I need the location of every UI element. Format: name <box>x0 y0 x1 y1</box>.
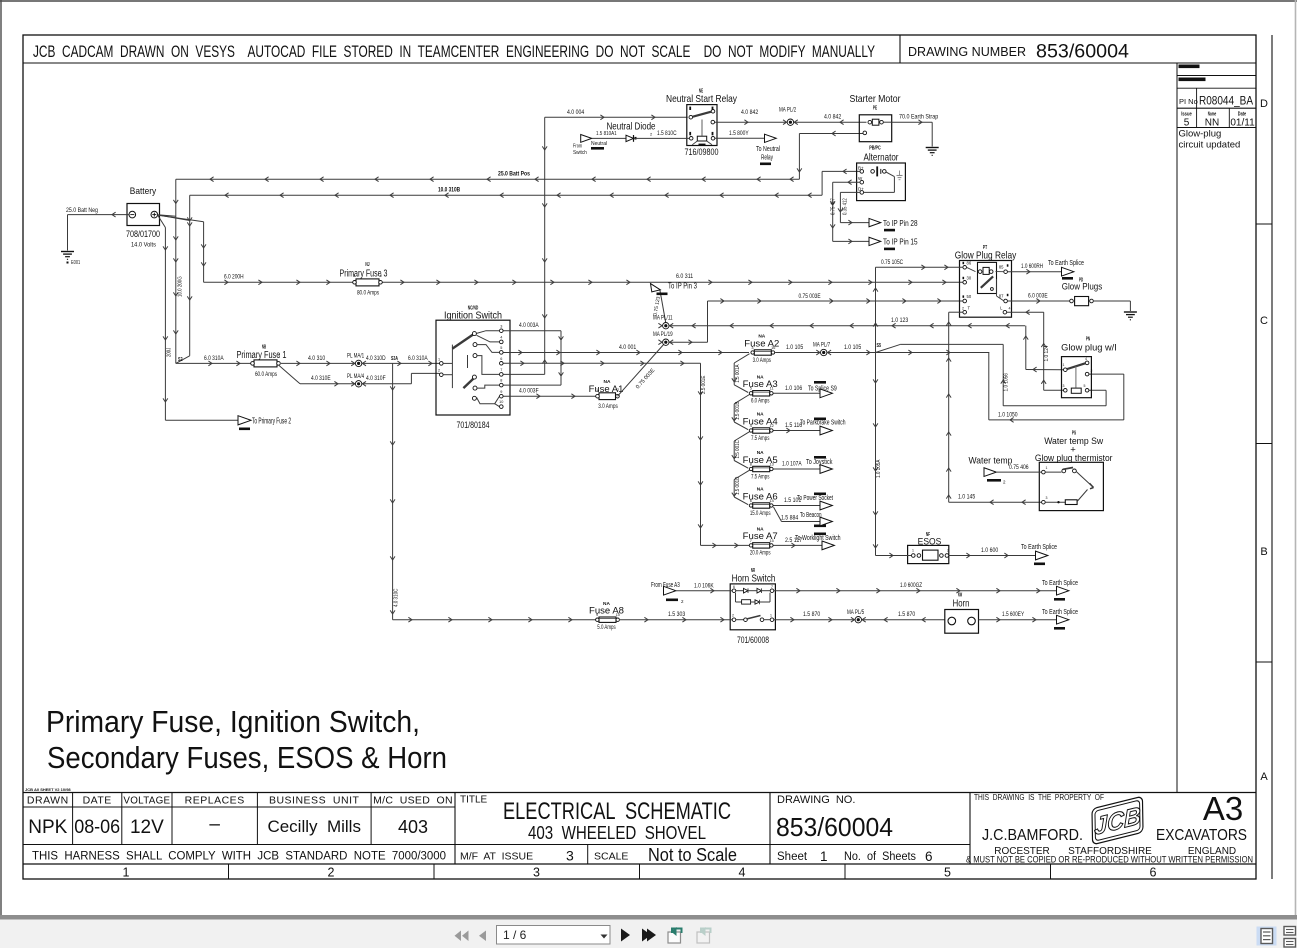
svg-text:01/11: 01/11 <box>1230 118 1255 129</box>
switch NR Horn Switch 701/60008 <box>730 568 775 646</box>
wire alternator W to IP Pin 15 <box>830 180 868 244</box>
svg-text:Water temp: Water temp <box>968 456 1012 467</box>
svg-text:4: 4 <box>750 424 752 428</box>
svg-text:S2: S2 <box>178 357 183 363</box>
wire 200J to Primary Fuse 2 <box>163 228 238 421</box>
svg-text:6: 6 <box>733 585 735 589</box>
svg-text:ELECTRICAL SCHEMATIC: ELECTRICAL SCHEMATIC <box>503 798 731 825</box>
svg-text:Glow-plug: Glow-plug <box>1179 129 1222 140</box>
svg-text:To Power Socket: To Power Socket <box>797 495 833 502</box>
svg-text:4: 4 <box>739 866 746 880</box>
wire 25.0 Batt Neg <box>66 208 129 251</box>
svg-text:6.0 003E: 6.0 003E <box>1028 293 1048 299</box>
svg-text:Battery: Battery <box>130 186 157 197</box>
wire 1.5 800Y to neutral relay <box>715 131 780 165</box>
svg-text:5: 5 <box>750 387 752 391</box>
title block row 1 labels <box>27 795 453 807</box>
arrow From Fuse A3 <box>651 582 684 604</box>
svg-text:To Neutral: To Neutral <box>756 146 780 153</box>
wire L pin / 1.0 124 <box>1007 310 1050 384</box>
alternator PB/PC <box>857 153 906 201</box>
svg-text:1: 1 <box>1046 466 1048 470</box>
svg-text:Not to Scale: Not to Scale <box>648 845 737 865</box>
svg-text:0.35 412: 0.35 412 <box>843 198 849 215</box>
svg-text:VOLTAGE: VOLTAGE <box>123 795 170 807</box>
wire 1.0 106K <box>676 583 732 593</box>
wire 1.0 1050 pin2 loop <box>989 353 1124 423</box>
svg-text:From: From <box>573 144 582 150</box>
switch PS Water temp Sw + Glow plug thermistor <box>1035 431 1113 511</box>
arrow To Earth Splice (horn switch) <box>1042 580 1078 601</box>
svg-text:10.0 310B: 10.0 310B <box>438 188 461 194</box>
wire 1.0 124 to pin 3 <box>1044 381 1064 390</box>
svg-text:2.5 001E: 2.5 001E <box>701 375 707 394</box>
svg-text:PL MA/1: PL MA/1 <box>347 354 365 360</box>
wire 25.0 Batt Pos bus <box>176 131 864 182</box>
svg-text:Neutral Start Relay: Neutral Start Relay <box>666 93 738 105</box>
arrow To Worklight Switch <box>822 541 834 550</box>
svg-text:85: 85 <box>999 265 1004 270</box>
svg-text:4.0 004: 4.0 004 <box>567 110 585 116</box>
svg-text:10: 10 <box>616 613 620 617</box>
svg-text:50: 50 <box>967 294 972 299</box>
connector MA PL/2 <box>715 108 867 126</box>
arrow To Power Socket <box>820 501 832 510</box>
arrow To Primary Fuse 2 <box>238 416 291 430</box>
svg-text:1.5 810C: 1.5 810C <box>657 131 677 137</box>
wire 1.0 105A S5 to ESOS <box>873 353 882 556</box>
arrow To Earth Splice (ESOS) <box>1021 544 1057 565</box>
svg-text:1.0 600RH: 1.0 600RH <box>1021 264 1043 270</box>
fuse NA Fuse A5 <box>743 450 778 480</box>
svg-text:08-06: 08-06 <box>74 817 120 838</box>
fuse NA Fuse A2 <box>744 334 779 364</box>
arrow Water temp (from sheet 2) <box>968 456 1041 485</box>
svg-text:R08044_BA: R08044_BA <box>1199 96 1253 108</box>
arrow To Joystick <box>820 465 832 474</box>
wire 1.5 870 to MA PL/5 <box>774 610 865 622</box>
svg-text:6: 6 <box>925 849 933 864</box>
svg-text:1: 1 <box>438 357 440 361</box>
arrow To IP Pin 28 <box>869 218 918 231</box>
svg-text:& MUST NOT BE COPIED OR RE-PRO: & MUST NOT BE COPIED OR RE-PRODUCED WITH… <box>966 855 1253 865</box>
svg-text:2: 2 <box>962 307 964 311</box>
svg-text:10.0 200G: 10.0 200G <box>178 276 184 297</box>
svg-text:D: D <box>1260 98 1268 110</box>
svg-text:A: A <box>1260 771 1268 783</box>
svg-text:Horn: Horn <box>953 599 970 610</box>
wire zigzag A5-A6 1.5 001D <box>732 470 750 505</box>
svg-text:Alternator: Alternator <box>864 153 900 164</box>
svg-text:1: 1 <box>912 549 914 553</box>
switch PN Glow plug w/I <box>1061 337 1117 398</box>
svg-text:7.5 Amps: 7.5 Amps <box>751 474 769 480</box>
svg-text:6.0 311: 6.0 311 <box>676 274 694 280</box>
svg-text:6.0 310A: 6.0 310A <box>204 356 224 362</box>
fuse NJ Primary Fuse 3 <box>340 262 388 297</box>
svg-text:15: 15 <box>769 539 773 543</box>
svg-text:2: 2 <box>380 274 382 278</box>
svg-text:To Earth Splice: To Earth Splice <box>1042 609 1078 616</box>
svg-text:J.C.BAMFORD.: J.C.BAMFORD. <box>982 827 1083 844</box>
svg-text:1: 1 <box>353 274 355 278</box>
svg-text:7: 7 <box>771 585 773 589</box>
svg-text:MA PL/7: MA PL/7 <box>813 342 831 348</box>
svg-text:4: 4 <box>1009 307 1011 311</box>
fuse NA Fuse A4 <box>743 412 778 442</box>
svg-text:NJ: NJ <box>365 262 369 268</box>
svg-text:DATE: DATE <box>83 795 112 807</box>
svg-text:1.0 1056: 1.0 1056 <box>1004 373 1010 391</box>
arrow To Earth Splice (horn) <box>1042 609 1078 630</box>
svg-text:3: 3 <box>566 848 574 864</box>
svg-text:M/C USED ON: M/C USED ON <box>373 795 453 807</box>
title block grid <box>23 787 1256 879</box>
svg-text:Primary Fuse, Ignition Switch,: Primary Fuse, Ignition Switch, <box>46 705 420 739</box>
title cell <box>460 795 737 866</box>
svg-text:1.5 800Y: 1.5 800Y <box>729 131 749 137</box>
wire 1.5 884 to beacon <box>774 507 827 527</box>
wire fuse A8 row <box>393 617 596 622</box>
fuse NB Primary Fuse 1 <box>237 345 287 379</box>
svg-text:4.0 310D: 4.0 310D <box>366 356 386 362</box>
wire T pin / 1.0 145 <box>946 312 1041 504</box>
svg-text:S5: S5 <box>877 343 882 349</box>
svg-text:4.0 310C: 4.0 310C <box>394 589 400 607</box>
wire 1.0 123 bus <box>669 318 1025 328</box>
svg-text:E001: E001 <box>71 260 80 266</box>
node S2 <box>176 356 190 364</box>
svg-text:3.0 Amps: 3.0 Amps <box>598 404 618 410</box>
wire 1.0 600GZ to earth splice <box>774 583 1056 593</box>
wire pin7 to 544.7 vertical / 4.0 004 <box>503 110 687 375</box>
wire 0.75 003E diagonal <box>618 344 665 397</box>
svg-text:1.0 600GZ: 1.0 600GZ <box>900 583 922 589</box>
svg-text:Horn Switch: Horn Switch <box>732 574 776 585</box>
svg-text:PB/PC: PB/PC <box>869 146 881 152</box>
svg-text:1: 1 <box>820 849 828 864</box>
svg-text:2: 2 <box>278 355 280 359</box>
motor PE Starter Motor <box>850 93 901 152</box>
svg-text:DRAWING NUMBER: DRAWING NUMBER <box>908 44 1026 59</box>
svg-text:701/80184: 701/80184 <box>457 420 490 431</box>
svg-text:To IP Pin 28: To IP Pin 28 <box>883 219 918 228</box>
wire alternator D+ to IP Pin 28 <box>831 192 869 225</box>
svg-text:1: 1 <box>770 614 772 618</box>
svg-text:To Joystick: To Joystick <box>806 459 833 466</box>
wire 1.5 870 to horn <box>862 612 945 622</box>
svg-text:3: 3 <box>751 346 753 350</box>
svg-text:1.0 106: 1.0 106 <box>785 386 803 392</box>
connector MA PL/11 <box>653 316 673 329</box>
svg-text:To Primary Fuse 2: To Primary Fuse 2 <box>252 416 291 425</box>
svg-text:1.0 124: 1.0 124 <box>1044 345 1050 361</box>
svg-text:SCALE: SCALE <box>594 851 628 863</box>
header bar text <box>33 42 1129 63</box>
svg-text:6.0 310A: 6.0 310A <box>408 356 428 362</box>
svg-text:1.5 303: 1.5 303 <box>668 612 686 618</box>
svg-text:4.0 842: 4.0 842 <box>824 115 842 121</box>
svg-text:To Parkbrake Switch: To Parkbrake Switch <box>800 420 846 427</box>
svg-text:80.0 Amps: 80.0 Amps <box>357 291 379 297</box>
svg-text:Glow Plug Relay: Glow Plug Relay <box>955 250 1017 262</box>
drawing no cell <box>776 794 933 864</box>
svg-text:Glow Plugs: Glow Plugs <box>1062 282 1103 293</box>
property cell <box>966 790 1253 865</box>
svg-text:716/09800: 716/09800 <box>685 147 719 158</box>
svg-text:2: 2 <box>1091 369 1093 373</box>
arrow To IP Pin 3 <box>651 282 698 324</box>
glow plugs PD <box>1008 282 1131 312</box>
fuse NA Fuse A6 <box>743 487 778 517</box>
svg-text:3: 3 <box>500 324 502 328</box>
svg-text:6: 6 <box>750 499 752 503</box>
connector PL MA/1 <box>347 354 366 367</box>
fuse NA Fuse A7 <box>743 527 778 557</box>
wire 4.0 003F pin9 to fuse A1 <box>503 389 596 399</box>
svg-text:20.0 Amps: 20.0 Amps <box>750 551 771 557</box>
fuse NA Fuse A3 <box>743 375 778 405</box>
arrow To Splice S9 <box>820 389 832 398</box>
battery 708/01700 <box>126 186 160 249</box>
switch NC/ND Ignition Switch 701/80184 <box>436 306 510 432</box>
wire 4.0 003A pin3 loop <box>503 323 563 385</box>
wire 6.0 200H battery down <box>201 222 206 283</box>
svg-text:1.5 001B: 1.5 001B <box>735 401 741 420</box>
wire 200K battery to S2 via 189.7 <box>187 195 192 356</box>
svg-text:MA PL/5: MA PL/5 <box>847 610 865 616</box>
fuse NA Fuse A8 <box>589 601 624 631</box>
connector MA PL/19 <box>653 332 673 346</box>
svg-text:30: 30 <box>967 276 972 281</box>
svg-text:4: 4 <box>500 336 502 340</box>
svg-text:JCB CADCAM DRAWN ON VESYS: JCB CADCAM DRAWN ON VESYS AUTOCAD FILE S… <box>33 43 875 61</box>
connector PL MA/4 <box>347 374 366 387</box>
svg-text:9: 9 <box>500 390 502 394</box>
svg-text:Sheet: Sheet <box>777 851 808 863</box>
svg-text:1.5 600EY: 1.5 600EY <box>1002 612 1024 618</box>
wire 2.5 117 to worklight <box>774 533 841 548</box>
svg-text:13: 13 <box>769 462 773 466</box>
svg-text:853/60004: 853/60004 <box>776 812 893 842</box>
arrow To Parkbrake Switch <box>820 426 832 435</box>
svg-text:0.75 407: 0.75 407 <box>831 198 837 215</box>
svg-text:1: 1 <box>596 388 598 392</box>
svg-text:708/01700: 708/01700 <box>126 229 160 239</box>
svg-text:DRAWING NO.: DRAWING NO. <box>777 794 855 806</box>
wire 1.0 600RH to earth splice <box>1008 264 1061 274</box>
svg-text:25.0 Batt Pos: 25.0 Batt Pos <box>498 172 530 178</box>
svg-text:6.0 200H: 6.0 200H <box>224 275 244 281</box>
svg-text:14: 14 <box>769 499 773 503</box>
page layout icons <box>1257 927 1296 948</box>
svg-text:2: 2 <box>438 369 440 373</box>
svg-text:5: 5 <box>1084 384 1086 388</box>
svg-text:2: 2 <box>947 549 949 553</box>
svg-text:JCB A0 SHEET V2 10/98: JCB A0 SHEET V2 10/98 <box>25 787 71 792</box>
wire 1.0 107A to joystick <box>774 456 833 469</box>
wire 1.5 303 <box>620 612 732 622</box>
connector MA PL/5 <box>855 617 861 623</box>
svg-text:Relay: Relay <box>761 155 773 162</box>
svg-text:12: 12 <box>769 424 773 428</box>
svg-text:5: 5 <box>944 866 951 880</box>
svg-text:4.0 001: 4.0 001 <box>619 345 637 351</box>
ground glow plugs <box>1124 311 1137 313</box>
svg-text:1.0 145: 1.0 145 <box>958 495 976 501</box>
svg-text:200J: 200J <box>167 348 173 357</box>
svg-text:1: 1 <box>123 866 130 880</box>
arrow To Beacon <box>820 517 832 526</box>
diode Neutral Diode <box>573 122 690 157</box>
ground starter earth <box>926 147 939 149</box>
svg-text:PL MA/4: PL MA/4 <box>347 374 365 380</box>
svg-text:MA PL/19: MA PL/19 <box>653 332 673 338</box>
svg-text:Secondary Fuses, ESOS & Horn: Secondary Fuses, ESOS & Horn <box>47 741 447 775</box>
arrow To IP Pin 15 <box>869 237 918 250</box>
svg-text:1.0 105: 1.0 105 <box>786 345 804 351</box>
svg-text:1.5 001A: 1.5 001A <box>735 364 741 383</box>
svg-text:Cecilly Mills: Cecilly Mills <box>267 817 361 836</box>
svg-text:MA PL/2: MA PL/2 <box>779 108 797 114</box>
svg-text:1.0 1050: 1.0 1050 <box>998 412 1018 418</box>
svg-text:THIS HARNESS SHALL COMPLY: THIS HARNESS SHALL COMPLY WITH JCB STAND… <box>32 851 446 863</box>
wire 6.0 310A row <box>176 356 440 366</box>
wire 0.75 105C <box>873 260 963 353</box>
wire 1.5 600EY to earth splice <box>979 612 1057 622</box>
zone numbers <box>123 866 1157 880</box>
svg-text:5: 5 <box>1184 118 1190 129</box>
toolbar <box>455 926 711 945</box>
svg-text:5: 5 <box>500 346 502 350</box>
svg-text:11: 11 <box>770 387 774 391</box>
wire 6.0 200H / 6.0 311 bus <box>204 274 963 285</box>
svg-text:1.5 810A1: 1.5 810A1 <box>596 131 617 137</box>
svg-text:1.0 600: 1.0 600 <box>981 548 999 554</box>
wire 4.0 310E bypass <box>279 365 440 386</box>
relay PT Glow Plug Relay <box>955 245 1017 317</box>
svg-text:4.0 003F: 4.0 003F <box>519 389 539 395</box>
svg-text:853/60004: 853/60004 <box>1036 42 1129 63</box>
svg-text:1 / 6: 1 / 6 <box>503 928 527 942</box>
svg-text:Glow plug w/I: Glow plug w/I <box>1061 343 1117 354</box>
wire 1.0 105 to MA PL/7 <box>775 342 831 352</box>
wire 1.0 1056 S5 to pin 5 <box>901 344 1106 405</box>
wire 1.5 116 to parkbrake <box>774 418 846 433</box>
svg-text:No. of Sheets: No. of Sheets <box>844 851 916 863</box>
svg-text:NPK: NPK <box>28 817 67 838</box>
wire 1.5 101 to power socket <box>774 493 834 506</box>
svg-text:16: 16 <box>771 346 775 350</box>
svg-text:Starter Motor: Starter Motor <box>850 93 901 105</box>
svg-text:Switch: Switch <box>573 150 587 156</box>
svg-text:60.0 Amps: 60.0 Amps <box>255 372 277 378</box>
wire 0.75 003E to glow plug relay 50 <box>669 294 963 345</box>
svg-text:701/60008: 701/60008 <box>737 635 769 646</box>
svg-text:4: 4 <box>1085 357 1087 361</box>
svg-text:3: 3 <box>1063 384 1065 388</box>
svg-text:S3A: S3A <box>391 356 398 362</box>
svg-text:1: 1 <box>1063 363 1065 367</box>
zone letters <box>1260 98 1268 783</box>
svg-text:6: 6 <box>500 357 502 361</box>
relay NE Neutral Start Relay 716/09800 <box>666 89 738 159</box>
svg-text:1.0 105: 1.0 105 <box>844 345 862 351</box>
svg-text:6: 6 <box>1150 866 1157 880</box>
svg-text:BUSINESS UNIT: BUSINESS UNIT <box>269 795 360 807</box>
svg-text:C: C <box>1260 315 1268 327</box>
sheet title text <box>46 705 447 775</box>
wire 1.0 600 to earth splice <box>949 548 1035 558</box>
svg-text:403 WHEELED SHOVEL: 403 WHEELED SHOVEL <box>528 823 706 843</box>
svg-text:4.0 310E: 4.0 310E <box>311 376 331 382</box>
svg-text:12V: 12V <box>130 817 164 838</box>
svg-text:EXCAVATORS: EXCAVATORS <box>1156 827 1247 844</box>
svg-text:T: T <box>968 306 971 311</box>
svg-text:TITLE: TITLE <box>460 795 488 806</box>
svg-text:6.0 Amps: 6.0 Amps <box>751 399 769 405</box>
svg-text:2: 2 <box>328 866 335 880</box>
svg-text:3: 3 <box>533 866 540 880</box>
horn NW <box>945 593 979 634</box>
svg-text:8: 8 <box>750 462 752 466</box>
svg-text:To IP Pin 3: To IP Pin 3 <box>668 282 697 291</box>
svg-text:8: 8 <box>500 379 502 383</box>
svg-text:To Beacon: To Beacon <box>800 512 822 519</box>
arrow To Earth Splice (glow relay) <box>1048 260 1084 284</box>
revision block <box>1177 63 1256 793</box>
wire zigzag A3-A4 1.5 001B <box>732 395 750 430</box>
svg-text:PE: PE <box>873 106 878 112</box>
svg-text:4.0 842: 4.0 842 <box>741 110 759 116</box>
svg-text:To Worklight Switch: To Worklight Switch <box>795 535 841 542</box>
svg-text:NN: NN <box>1205 118 1219 129</box>
svg-text:To IP Pin 15: To IP Pin 15 <box>883 238 918 247</box>
wire 10.0 200G battery to S2 <box>173 179 183 363</box>
wire into ESOS <box>876 553 912 558</box>
svg-text:2: 2 <box>617 388 619 392</box>
svg-text:2: 2 <box>732 614 734 618</box>
svg-text:1.5 870: 1.5 870 <box>898 612 916 618</box>
wire battery fan-out <box>158 215 204 228</box>
wire 4.0 001 row <box>503 345 749 355</box>
wire 1.0 105 to S5 <box>828 345 990 355</box>
svg-text:To Earth Splice: To Earth Splice <box>1048 260 1084 267</box>
svg-text:MA PL/11: MA PL/11 <box>653 316 673 322</box>
wire 1.0 106 to splice S9 <box>774 381 837 393</box>
svg-text:1.5 870: 1.5 870 <box>803 612 821 618</box>
svg-text:25.0 Batt Neg: 25.0 Batt Neg <box>66 208 98 214</box>
svg-text:7.5 Amps: 7.5 Amps <box>751 436 769 442</box>
svg-text:Neutral: Neutral <box>591 141 607 147</box>
svg-text:circuit updated: circuit updated <box>1179 140 1241 151</box>
svg-text:1.0 123: 1.0 123 <box>891 318 909 324</box>
svg-text:4.0 310F: 4.0 310F <box>366 376 386 382</box>
svg-text:1: 1 <box>251 355 253 359</box>
svg-text:0.75 105C: 0.75 105C <box>881 260 904 266</box>
wire zigzag A2-A3 1.5 001A <box>732 354 750 393</box>
wire 4.0 310C down to fuse A8 row <box>390 363 399 619</box>
svg-text:REPLACES: REPLACES <box>185 795 245 807</box>
svg-text:A3: A3 <box>1203 790 1243 827</box>
svg-text:0.75 406: 0.75 406 <box>1009 465 1029 471</box>
svg-text:1.0 107A: 1.0 107A <box>782 462 802 468</box>
svg-text:1.5 001C: 1.5 001C <box>735 440 741 458</box>
svg-text:M/F AT ISSUE: M/F AT ISSUE <box>460 851 533 863</box>
svg-text:To Earth Splice: To Earth Splice <box>1042 580 1078 587</box>
svg-text:1.0 106K: 1.0 106K <box>694 583 714 589</box>
wire zigzag A4-A5 1.5 001C <box>732 432 750 469</box>
